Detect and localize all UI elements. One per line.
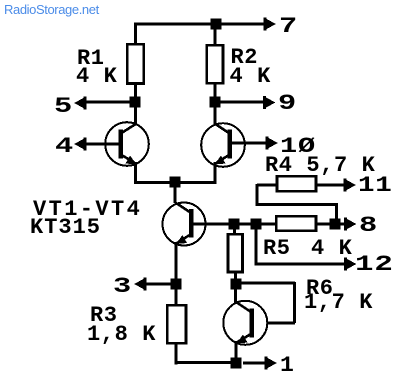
label pin 8 (359, 218, 378, 233)
wire: VT4 collector drop (234, 288, 237, 303)
resistor R5 (276, 216, 316, 230)
label pin 1 (280, 358, 295, 373)
pin 11 arrow (344, 179, 357, 192)
wire: R6 top stub (233, 228, 236, 235)
node: R2/VT2 collector junction (210, 97, 221, 108)
wire: VT3 collector drop (174, 186, 177, 203)
wire: VT1 base lead to pin 4 (84, 143, 119, 146)
node: emitters junction (170, 177, 181, 188)
wire: R2 top stub (214, 24, 217, 44)
node: VT4 base/collector junction (231, 279, 242, 290)
node: R2 top junction (211, 19, 222, 30)
pin 1 arrow (265, 357, 278, 370)
label resistor R6 designator (306, 281, 334, 296)
label pin 4 (55, 139, 74, 154)
wire: R4 feedback run (256, 203, 339, 206)
label resistor R2 designator (231, 50, 259, 65)
label pin 9 (278, 96, 297, 111)
wire: VT4 base loop top (236, 282, 295, 285)
wire: R4 right lead to pin 11 (317, 184, 345, 187)
label resistor R6 value 1,7 K (304, 295, 373, 310)
wire: VT2 emitter drop (214, 162, 217, 183)
node: pin 3 junction (171, 279, 182, 290)
label pin 3 (113, 279, 132, 294)
wire: VT3 base line (193, 223, 276, 226)
wire: R4 left lead (257, 184, 277, 187)
label resistor R1 value 4 K (76, 69, 117, 84)
wire: pin 9 lead (216, 101, 264, 104)
label pin 11 (358, 178, 393, 193)
pin 7 arrow (264, 18, 277, 31)
label transistor type KT315 (30, 220, 101, 235)
wire: VT4 emitter drop (235, 341, 238, 360)
resistor R6 (228, 234, 242, 272)
wire: R4 feedback riser (335, 204, 338, 220)
wire: VT4 base lead (253, 322, 295, 325)
wire: bottom rail (175, 361, 235, 364)
node: R1/VT1 collector junction (130, 97, 141, 108)
label pin 5 (54, 99, 73, 114)
label pin 10 (280, 139, 316, 154)
wire: emitters rail (134, 181, 217, 184)
wire: VT2 base lead to pin 10 (232, 142, 266, 145)
wire: pin 12 run (255, 263, 345, 266)
resistor R1 (127, 44, 143, 83)
transistor Q VT3 body (163, 203, 206, 246)
wire: R4 left riser (256, 184, 259, 204)
label resistor R5 designator (263, 241, 291, 256)
transistor Q VT1 body (105, 122, 149, 166)
wire: R3 top stub (175, 289, 178, 305)
wire: VT4 base loop right (293, 282, 296, 323)
label resistor R1 designator (77, 51, 105, 66)
pin 12 arrow (344, 258, 357, 271)
wire: R1 bottom stub (134, 85, 137, 99)
wire: VT2 collector drop (214, 105, 217, 124)
resistor R3 (167, 305, 186, 343)
label resistor R2 value 4 K (230, 69, 271, 84)
node: pin 12 branch junction (251, 219, 262, 230)
pin 8 arrow (344, 218, 357, 231)
node: pin 1 junction (231, 358, 242, 369)
wire: R5 output lead (316, 223, 345, 226)
transistor Q VT4 body (223, 301, 267, 345)
wire: R6 bottom stub (234, 273, 237, 281)
label pin 12 (355, 257, 394, 272)
label transistors VT1-VT4 (33, 202, 142, 217)
pin 4 arrow (74, 138, 87, 151)
label resistor R3 value 1,8 K (87, 327, 156, 342)
wire: pin 3 lead (144, 283, 172, 286)
label resistor R3 designator (90, 308, 118, 323)
node: pin 8 junction (330, 219, 341, 230)
wire: VT3 emitter drop (175, 242, 178, 282)
wire: VT1 emitter drop (134, 162, 137, 183)
wire: R2 bottom stub (214, 85, 217, 99)
label resistor R4 designator and value 5,7 K (265, 158, 375, 173)
wire: pin 1 lead (243, 362, 265, 365)
pin 10 arrow (266, 137, 279, 150)
pin 5 arrow (74, 97, 87, 110)
wire: VT1 collector drop (134, 105, 137, 124)
wire: pin 12 drop (255, 229, 258, 264)
resistor R4 (277, 176, 316, 191)
resistor R2 (207, 45, 223, 83)
label pin 7 (279, 19, 298, 34)
wire: R3 bottom stub (175, 345, 178, 365)
wire: top supply rail (134, 23, 264, 26)
node: R6 top junction (229, 219, 240, 230)
wire: R1 top stub (134, 24, 137, 44)
site logo text RadioStorage.net (4, 2, 99, 17)
label resistor R5 value 4 K (311, 241, 352, 256)
wire: pin 5 lead (84, 101, 135, 104)
pin 3 arrow (134, 278, 147, 291)
transistor Q VT2 body (201, 123, 245, 167)
pin 9 arrow (263, 96, 276, 109)
